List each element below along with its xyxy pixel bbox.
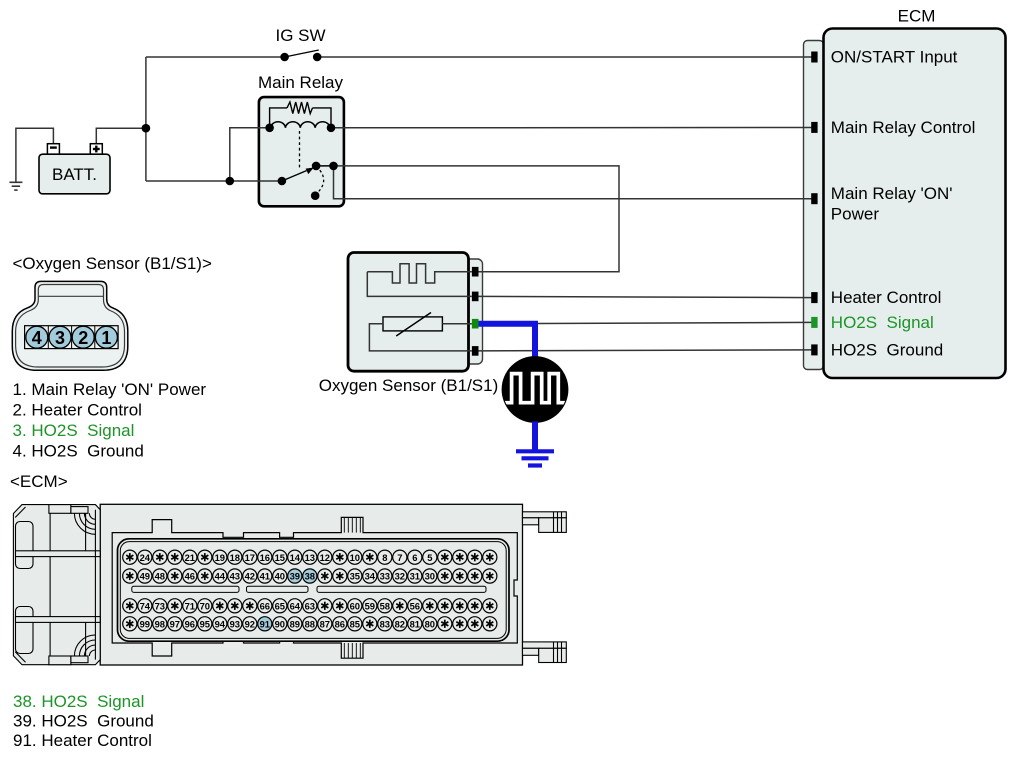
svg-text:99: 99: [140, 619, 150, 630]
relay contact travel arc (dashed): [318, 170, 324, 192]
svg-text:82: 82: [395, 619, 405, 630]
heater element (square wave): [367, 264, 472, 283]
oxygen sensor element icon: [501, 356, 569, 423]
wire oxygen sensor pin 4 to ECM HO2S Ground: [479, 350, 812, 351]
svg-text:32: 32: [395, 571, 405, 582]
thermistor (sensing element): [383, 317, 442, 331]
oxygen sensor connector strip: [461, 259, 483, 364]
svg-text:4: 4: [32, 328, 42, 348]
ECM connector key slots: [132, 586, 486, 592]
ECM connector shroud outline: [112, 517, 517, 658]
svg-text:88: 88: [305, 619, 315, 630]
thermistor leads: [442, 323, 472, 325]
svg-text:91: 91: [260, 619, 270, 630]
svg-text:7: 7: [397, 552, 402, 563]
relay armature mechanical link (dashed): [299, 131, 301, 170]
svg-text:34: 34: [365, 571, 376, 582]
svg-text:Main Relay 'ON': Main Relay 'ON': [831, 184, 953, 203]
svg-text:24: 24: [140, 552, 151, 563]
svg-text:4. HO2S Ground: 4. HO2S Ground: [13, 441, 144, 460]
svg-text:10: 10: [350, 552, 360, 563]
svg-text:16: 16: [260, 552, 270, 563]
ground (battery chassis ground): [9, 182, 22, 190]
wire relay output to oxygen sensor pin 1: [334, 166, 620, 272]
oxygen sensor pin 2: [472, 292, 479, 302]
svg-text:17: 17: [245, 552, 255, 563]
svg-text:Heater Control: Heater Control: [831, 288, 942, 307]
node B junction: [226, 177, 235, 186]
svg-text:60: 60: [350, 601, 360, 612]
svg-text:70: 70: [200, 601, 210, 612]
oxygen sensor pin 4: [472, 346, 479, 356]
svg-text:ON/START Input: ON/START Input: [831, 48, 958, 67]
svg-text:80: 80: [425, 619, 435, 630]
ECM pin HO2S Ground: [811, 344, 817, 355]
svg-text:8: 8: [382, 552, 387, 563]
svg-text:66: 66: [260, 601, 270, 612]
ECM U1 box: [824, 29, 1006, 379]
svg-text:<Oxygen Sensor (B1/S1)>: <Oxygen Sensor (B1/S1)>: [13, 254, 212, 273]
svg-text:71: 71: [185, 601, 195, 612]
svg-text:96: 96: [185, 619, 195, 630]
svg-text:Main Relay Control: Main Relay Control: [831, 118, 976, 137]
svg-text:HO2S Signal: HO2S Signal: [831, 313, 934, 332]
wire relay output to ECM Main Relay ON Power: [334, 166, 812, 199]
svg-text:HO2S Ground: HO2S Ground: [831, 340, 943, 359]
ECM connector terminal row 4: [123, 617, 497, 631]
svg-text:65: 65: [275, 601, 285, 612]
svg-text:15: 15: [275, 552, 285, 563]
svg-text:97: 97: [170, 619, 180, 630]
svg-text:43: 43: [230, 571, 240, 582]
svg-text:33: 33: [380, 571, 390, 582]
svg-text:74: 74: [140, 601, 151, 612]
svg-text:56: 56: [410, 601, 420, 612]
svg-text:95: 95: [200, 619, 210, 630]
svg-text:40: 40: [275, 571, 285, 582]
svg-text:3: 3: [55, 328, 65, 348]
svg-text:87: 87: [320, 619, 330, 630]
svg-text:94: 94: [215, 619, 226, 630]
svg-text:1: 1: [101, 328, 111, 348]
svg-text:81: 81: [410, 619, 420, 630]
svg-text:73: 73: [155, 601, 165, 612]
svg-text:19: 19: [215, 552, 225, 563]
wire IG SW to ECM ON/START Input: [317, 56, 811, 58]
svg-text:5: 5: [427, 552, 432, 563]
svg-text:38: 38: [305, 571, 315, 582]
wire oxygen sensor pin 2 to ECM Heater Control: [479, 296, 812, 297]
svg-text:Oxygen Sensor (B1/S1): Oxygen Sensor (B1/S1): [319, 376, 499, 395]
svg-text:48: 48: [155, 571, 165, 582]
svg-text:44: 44: [215, 571, 226, 582]
ECM connector terminal row 3: [123, 599, 497, 613]
inductor relay coil: [271, 122, 330, 128]
shroud hatched tab top: [344, 517, 360, 532]
relay switch arm with arrow: [282, 171, 307, 181]
svg-text:64: 64: [290, 601, 301, 612]
svg-text:31: 31: [410, 571, 420, 582]
switch IG SW: [275, 26, 325, 61]
svg-text:38. HO2S Signal: 38. HO2S Signal: [13, 692, 144, 711]
relay NO contact dots: [312, 162, 321, 171]
svg-text:59: 59: [365, 601, 375, 612]
relay Main Relay box: [259, 97, 344, 206]
ECM connector left latch bracket: [13, 505, 100, 665]
svg-text:92: 92: [245, 619, 255, 630]
svg-text:Power: Power: [831, 204, 880, 223]
svg-text:41: 41: [260, 571, 270, 582]
svg-text:46: 46: [185, 571, 195, 582]
svg-text:13: 13: [305, 552, 315, 563]
svg-text:39. HO2S Ground: 39. HO2S Ground: [13, 712, 154, 731]
wire main vertical bus (node A up to IG SW, down to relay feed): [145, 57, 147, 181]
oxygen sensor connector face outline: [12, 281, 128, 370]
node A junction: [142, 124, 151, 133]
wire oxygen sensor pin 3 to ECM HO2S Signal: [479, 322, 812, 323]
svg-text:63: 63: [305, 601, 315, 612]
svg-text:98: 98: [155, 619, 165, 630]
svg-text:83: 83: [380, 619, 390, 630]
svg-text:49: 49: [140, 571, 150, 582]
resistor (relay suppression): [270, 102, 331, 126]
ECM pin HO2S Signal: [811, 317, 817, 328]
ECM connector strip: [804, 41, 824, 370]
svg-text:30: 30: [425, 571, 435, 582]
svg-text:89: 89: [290, 619, 300, 630]
heater return wire: [367, 272, 472, 297]
svg-text:85: 85: [350, 619, 360, 630]
svg-text:BATT.: BATT.: [52, 165, 97, 184]
svg-text:93: 93: [230, 619, 240, 630]
wire battery plus to node A: [96, 128, 146, 144]
ground signal ground (blue): [516, 451, 554, 465]
connector terminal row box: [25, 326, 119, 349]
svg-text:21: 21: [185, 552, 195, 563]
ECM connector terminal row 2: [123, 569, 497, 583]
connector terminal 1: [95, 326, 117, 348]
oxygen sensor connector face inner line: [16, 285, 125, 368]
wire sensor icon to signal ground (blue): [532, 422, 538, 450]
svg-text:90: 90: [275, 619, 285, 630]
svg-text:12: 12: [320, 552, 330, 563]
oxygen sensor box: [348, 253, 469, 372]
wire HO2S signal (blue): [479, 324, 536, 357]
svg-text:58: 58: [380, 601, 390, 612]
svg-text:3. HO2S Signal: 3. HO2S Signal: [13, 421, 135, 440]
ECM connector right mounting tabs: [523, 512, 567, 663]
battery BATT.: [39, 144, 110, 194]
svg-text:2: 2: [78, 328, 88, 348]
connector tab cross line: [38, 295, 103, 297]
svg-text:91. Heater Control: 91. Heater Control: [13, 731, 152, 750]
connector terminal 3: [49, 326, 71, 348]
ECM connector left latch springs: [74, 513, 95, 656]
oxygen sensor pin 1: [472, 267, 479, 277]
ECM connector terminal row 1: [123, 550, 497, 564]
shroud hatched tab bottom: [344, 643, 360, 658]
relay NC contact dot: [311, 191, 320, 200]
svg-text:6: 6: [412, 552, 417, 563]
ECM pin Heater Control: [811, 292, 817, 303]
ECM connector pin field: [118, 539, 510, 641]
svg-text:86: 86: [335, 619, 345, 630]
svg-text:<ECM>: <ECM>: [10, 472, 68, 491]
svg-text:2. Heater Control: 2. Heater Control: [13, 401, 142, 420]
wire relay coil to ECM Main Relay Control: [331, 127, 812, 129]
svg-text:35: 35: [350, 571, 360, 582]
ECM pin Main Relay ON Power: [811, 193, 817, 204]
connector terminal 4: [26, 326, 48, 348]
wire node B up to relay coil: [230, 128, 270, 181]
svg-text:39: 39: [290, 571, 300, 582]
svg-text:IG SW: IG SW: [275, 26, 325, 45]
svg-text:Main Relay: Main Relay: [258, 73, 344, 92]
connector terminal 2: [72, 326, 94, 348]
wire battery minus to chassis ground: [16, 128, 54, 181]
relay coil terminal dots: [265, 124, 274, 133]
svg-text:18: 18: [230, 552, 240, 563]
wire IG SW feed: [146, 56, 285, 58]
svg-text:14: 14: [290, 552, 301, 563]
svg-text:ECM: ECM: [898, 7, 936, 26]
svg-text:42: 42: [245, 571, 255, 582]
ECM connector main body: [100, 504, 522, 665]
oxygen sensor pin 3: [472, 319, 479, 329]
ECM pin ON/START Input: [811, 52, 817, 63]
relay switch common contact: [278, 177, 287, 186]
svg-text:1. Main Relay 'ON' Power: 1. Main Relay 'ON' Power: [13, 380, 207, 399]
wire node A to relay switch common: [146, 180, 282, 182]
ECM pin Main Relay Control: [811, 122, 817, 133]
